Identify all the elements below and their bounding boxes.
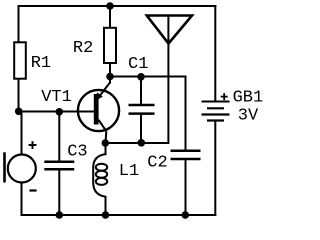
wire right rail lower [214,121,216,217]
wire bottom rail [21,214,217,216]
wire R2 lead [109,5,111,77]
node C3 bottom junction [56,211,64,219]
node C1 top junction [137,73,145,81]
node L1 bottom junction [102,211,110,219]
transistor VT1 [41,77,119,144]
node top R2 junction [106,2,114,10]
node R2 bottom / emitter junction [106,73,114,81]
wire C2 top lead [185,76,187,152]
node collector junction [102,139,110,147]
svg-text:R2: R2 [73,39,93,58]
wire C3 bottom lead [58,169,60,216]
svg-text:C2: C2 [147,153,167,172]
svg-text:C1: C1 [128,55,148,74]
wire emitter bus y=76.5 [110,76,186,78]
wire left rail [18,5,20,113]
svg-text:R1: R1 [31,54,51,73]
svg-text:VT1: VT1 [41,88,72,107]
node C1 bottom junction [138,139,146,147]
svg-text:3V: 3V [238,106,259,125]
wire C2 bottom lead [185,159,187,217]
wire right rail upper [214,5,216,102]
wire base (node base) [18,111,95,113]
capacitor C1 [128,55,155,144]
battery GB1 [202,89,264,126]
wire top rail [18,5,217,7]
inductor L1 [93,142,139,216]
svg-text:GB1: GB1 [233,89,264,108]
capacitor C3 [44,143,87,170]
antenna W1 [147,16,192,144]
svg-text:L1: L1 [119,162,139,181]
resistor R2 [73,28,116,63]
capacitor C2 [147,151,200,173]
node C3 top junction [56,108,64,116]
wire C3 top lead [58,111,60,163]
node C2 bottom junction [182,211,190,219]
svg-text:C3: C3 [67,143,87,162]
resistor R1 [14,42,51,78]
node base-left junction [15,108,23,116]
wire collector bus y=143 [105,142,170,144]
microphone BM1 [3,111,36,217]
